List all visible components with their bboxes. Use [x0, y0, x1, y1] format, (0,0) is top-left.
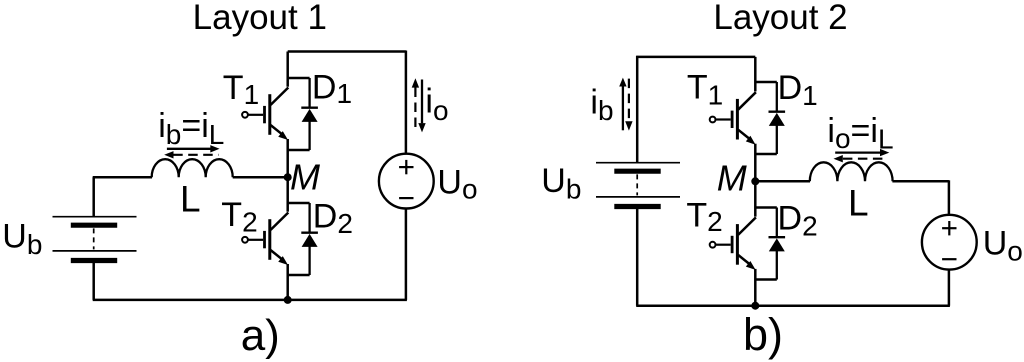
transistor T2 — [242, 177, 288, 300]
wire top rail L1 — [288, 50, 406, 53]
svg-text:Layout 2: Layout 2 — [713, 0, 847, 37]
svg-text:T1: T1 — [223, 69, 259, 110]
svg-text:D2: D2 — [778, 200, 818, 242]
diode D2 — [288, 203, 318, 275]
svg-text:b): b) — [743, 309, 783, 360]
voltage source UO left — [379, 154, 434, 209]
svg-text:M: M — [717, 157, 747, 198]
arrow iL dashed left — [843, 158, 886, 160]
svg-text:D1: D1 — [778, 69, 818, 111]
diode D1 right — [755, 82, 785, 154]
arrow io dashed up — [414, 88, 416, 133]
svg-text:D2: D2 — [313, 198, 353, 239]
svg-text:L: L — [848, 183, 869, 224]
wire right branch lower L2 — [948, 270, 951, 306]
svg-text:ib=iL: ib=iL — [158, 107, 224, 150]
svg-text:ib: ib — [590, 84, 613, 126]
svg-text:T2: T2 — [221, 196, 257, 238]
wire left vertical lower L1 — [92, 263, 95, 300]
wire right branch lower L1 — [405, 208, 408, 300]
transistor T1 — [242, 52, 288, 178]
arrow iL dashed left — [173, 154, 218, 156]
svg-text:Uo: Uo — [437, 163, 477, 204]
svg-text:L: L — [180, 179, 201, 220]
node bottom junction L2 — [751, 302, 759, 310]
node M junction right — [751, 177, 759, 185]
arrow ib solid right — [167, 148, 211, 150]
svg-text:io: io — [425, 82, 448, 126]
diode D1 — [288, 78, 318, 150]
transistor T2 right — [710, 181, 756, 305]
svg-text:T2: T2 — [686, 196, 722, 237]
arrow ib solid up — [622, 86, 624, 130]
svg-text:a): a) — [241, 311, 280, 360]
arrow io solid right — [835, 151, 880, 153]
diode D2 right — [755, 208, 785, 280]
wire inductor to right branch L2 — [892, 180, 949, 183]
wire right branch upper L1 — [405, 51, 408, 154]
wire left vertical lower L2 — [636, 209, 639, 306]
svg-text:D1: D1 — [312, 69, 352, 110]
svg-text:T1: T1 — [687, 69, 723, 111]
svg-text:Layout 1: Layout 1 — [193, 0, 327, 37]
arrow io solid down — [421, 80, 423, 124]
svg-text:M: M — [290, 157, 320, 198]
svg-text:Uo: Uo — [983, 225, 1023, 267]
inductor L left — [152, 159, 233, 177]
transistor T1 right — [710, 57, 756, 181]
svg-text:Ub: Ub — [541, 162, 581, 204]
voltage source UO right — [922, 215, 977, 270]
wire left vertical upper L2 — [636, 56, 639, 163]
wire top rail L2 — [636, 56, 755, 59]
node M junction — [284, 173, 292, 181]
wire bottom rail L1 — [93, 299, 407, 302]
arrow ib dashed down — [628, 79, 630, 122]
svg-text:Ub: Ub — [2, 218, 42, 260]
node bottom junction L1 — [284, 296, 292, 304]
svg-text:io=iL: io=iL — [827, 112, 893, 155]
wire right branch upper L2 — [948, 180, 951, 215]
battery UB right — [596, 163, 680, 207]
inductor L right — [810, 162, 893, 181]
battery UB left — [53, 217, 137, 261]
wire left horizontal L1 — [93, 176, 152, 179]
wire bottom rail L2 — [636, 304, 950, 307]
wire left vertical upper L1 — [92, 177, 95, 217]
wire inductor to node M L1 — [233, 176, 288, 179]
wire node M to inductor L2 — [755, 180, 810, 183]
